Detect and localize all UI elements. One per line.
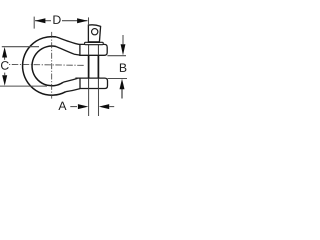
dimension B down arrowhead bbox=[121, 44, 126, 55]
dimension C up stub bbox=[4, 58, 6, 60]
dimension A right arrow tail bbox=[109, 106, 114, 108]
bottom ear block bbox=[75, 78, 107, 88]
dimension A right extension line bbox=[98, 89, 100, 117]
jaw throat bottom line bbox=[63, 78, 78, 82]
pin seam through bottom ear block left bbox=[88, 78, 90, 88]
pin seam through top ear block right bbox=[97, 45, 99, 56]
dimension B up arrow tail bbox=[121, 89, 123, 99]
dimension A left arrowhead bbox=[78, 104, 89, 109]
lower ear outer taper line bbox=[66, 89, 80, 92]
pin head bottom edge bbox=[88, 41, 99, 43]
dimension B down arrow tail bbox=[122, 35, 124, 44]
dimension A left arrow tail bbox=[70, 106, 77, 108]
dimension C up arrowhead bbox=[2, 47, 7, 58]
dimension A label bbox=[58, 102, 66, 110]
dimension C down stub bbox=[4, 73, 6, 76]
dimension B up arrowhead bbox=[120, 79, 125, 90]
dimension A right arrowhead bbox=[99, 104, 110, 109]
dimension D left tick bbox=[33, 17, 35, 29]
dimension D line left segment bbox=[35, 20, 51, 22]
shackle bow outer arc bbox=[23, 37, 66, 96]
upper ear outer taper line bbox=[56, 37, 80, 45]
bow horizontal centerline bbox=[9, 63, 84, 66]
dimension C label bbox=[1, 61, 9, 70]
pin seam through bottom ear block right bbox=[97, 78, 99, 88]
jaw throat top line bbox=[56, 47, 80, 56]
pin seam through top ear block left bbox=[88, 45, 90, 56]
dimension C top extension line bbox=[2, 46, 39, 48]
dimension C down arrowhead bbox=[2, 75, 7, 86]
top ear block bbox=[80, 44, 107, 55]
pin head eye bbox=[92, 29, 98, 35]
dimension B label bbox=[120, 64, 126, 72]
dimension B top extension line bbox=[107, 55, 126, 57]
pin shaft left edge (jaw) bbox=[88, 55, 90, 78]
dimension D left arrowhead bbox=[35, 18, 46, 23]
shackle bow inner arc bbox=[32, 46, 63, 86]
dimension A left extension line bbox=[88, 89, 90, 117]
pin head bbox=[88, 25, 100, 43]
dimension C bottom extension line bbox=[0, 85, 47, 87]
dimension D line right segment bbox=[62, 20, 88, 22]
dimension D extension line (pin left, above head) bbox=[88, 17, 90, 25]
dimension D label bbox=[53, 16, 60, 24]
pin collar bbox=[85, 42, 104, 44]
bow vertical centerline bbox=[51, 32, 53, 99]
dimension B bottom extension line bbox=[108, 78, 127, 80]
dimension D right arrowhead bbox=[77, 18, 88, 23]
pin shaft right edge (jaw) bbox=[97, 55, 99, 78]
